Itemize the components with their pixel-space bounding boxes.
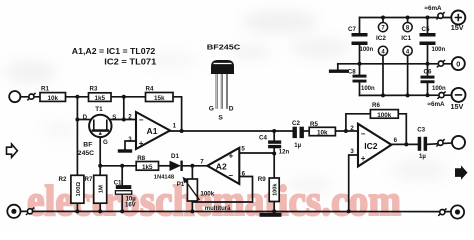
shield connector bottom-right xyxy=(451,205,464,218)
BF245C TO-92 package body xyxy=(209,60,234,122)
svg-text:C5: C5 xyxy=(422,26,430,33)
svg-text:A2: A2 xyxy=(216,161,227,171)
wire C7 column top xyxy=(359,18,361,34)
svg-text:IC2 = TL071: IC2 = TL071 xyxy=(104,57,156,67)
node ground rail IC2 pin3 xyxy=(347,209,351,213)
node ground rail C1 xyxy=(120,209,124,213)
node R3/R4/T1-S junction xyxy=(122,95,126,99)
plug at +15V xyxy=(436,12,444,19)
capacitor C5 100n xyxy=(420,26,446,53)
wire R9 top lead xyxy=(273,154,275,179)
capacitor C2 1u xyxy=(292,120,304,149)
svg-text:12n: 12n xyxy=(279,149,290,155)
wire C4 top lead xyxy=(273,131,275,140)
node 0V rail C7/C8 xyxy=(358,62,362,66)
svg-text:5: 5 xyxy=(241,145,245,152)
svg-text:R5: R5 xyxy=(310,121,318,128)
svg-text:S: S xyxy=(218,115,223,122)
diode D1 1N4148 xyxy=(154,153,182,180)
wire vertical from top rail to source/pin2 node xyxy=(123,97,125,120)
op-amp A1 xyxy=(128,112,176,149)
svg-text:1k5: 1k5 xyxy=(94,95,105,102)
svg-text:100k: 100k xyxy=(377,112,392,119)
wire power -15V rail xyxy=(360,94,452,96)
wire A2 pin5 to C4/R9 node xyxy=(239,152,274,155)
wire R7 bottom lead xyxy=(99,203,101,211)
svg-text:10k: 10k xyxy=(47,95,58,102)
input signal arrow (outline) xyxy=(7,144,18,157)
svg-text:3: 3 xyxy=(350,148,354,155)
node R1/R3/T1-D junction xyxy=(75,95,79,99)
wire T1 source lead to A1 pin2 xyxy=(110,119,136,121)
resistor R2 xyxy=(59,175,84,203)
plug at 0V xyxy=(437,60,445,67)
capacitor C3 1u xyxy=(417,126,427,160)
wire R5 to IC2 pin2 xyxy=(335,130,358,132)
wire C2 to R5 xyxy=(304,130,309,132)
node IC2 output junction xyxy=(404,142,408,146)
IC1 supply pin 8 callout xyxy=(403,23,412,32)
IC1 supply pin 4 callout xyxy=(403,46,412,55)
svg-text:R3: R3 xyxy=(90,85,98,92)
svg-text:multitură: multitură xyxy=(205,206,231,212)
svg-text:2: 2 xyxy=(350,125,354,132)
svg-text:R1: R1 xyxy=(41,86,49,93)
svg-text:1: 1 xyxy=(173,123,177,130)
wire A1 pin3 to ground bar xyxy=(125,141,136,149)
svg-text:C2: C2 xyxy=(292,120,300,127)
svg-text:R8: R8 xyxy=(137,155,145,162)
svg-text:100k: 100k xyxy=(200,191,214,198)
node gate/R7 junction xyxy=(98,164,102,168)
resistor R9 xyxy=(258,176,279,202)
wire IC2 pin3 down to ground rail xyxy=(349,155,358,211)
wire R4 to feedback corner down to A1 output xyxy=(173,97,182,131)
svg-text:1N4148: 1N4148 xyxy=(154,175,175,181)
svg-text:R7: R7 xyxy=(85,176,93,183)
svg-text:−: − xyxy=(228,171,233,180)
wire D1 to A2 output pin7 xyxy=(183,165,207,167)
wire C4 bottom lead xyxy=(273,148,275,153)
svg-text:D: D xyxy=(83,114,88,121)
capacitor C7 100n xyxy=(348,26,374,53)
resistor R3 xyxy=(89,85,112,102)
svg-text:15k: 15k xyxy=(154,95,165,102)
svg-text:100n: 100n xyxy=(360,47,374,53)
IC2 supply pin 7 callout xyxy=(378,23,387,32)
wire A2 pin6 feedback loop xyxy=(192,177,252,203)
resistor R5 xyxy=(309,121,335,136)
svg-text:3: 3 xyxy=(128,136,132,143)
node -rail IC1 pin4 xyxy=(406,93,410,97)
ground bar below rail at R9 xyxy=(260,213,282,217)
capacitor C1 electrolytic 10u/16V xyxy=(114,180,137,209)
node ground rail P1 xyxy=(190,209,194,213)
resistor R7 xyxy=(85,175,107,203)
capacitor C6 100n xyxy=(421,68,447,92)
svg-text:C7: C7 xyxy=(348,26,356,33)
output connector xyxy=(452,136,465,149)
node T1 source / A1 pin2 xyxy=(122,118,126,122)
svg-text:G: G xyxy=(209,105,214,112)
svg-text:6: 6 xyxy=(242,170,246,177)
svg-text:1µ: 1µ xyxy=(419,154,426,160)
svg-text:16V: 16V xyxy=(125,202,136,208)
svg-text:100k: 100k xyxy=(273,183,279,196)
svg-text:245C: 245C xyxy=(78,150,94,157)
node C4 top junction xyxy=(272,129,276,133)
svg-text:2: 2 xyxy=(128,114,132,121)
svg-text:100n: 100n xyxy=(432,47,446,53)
svg-text:100n: 100n xyxy=(361,86,375,92)
node -rail IC2 pin4 xyxy=(381,93,385,97)
wire P1 bottom lead to ground rail xyxy=(191,201,193,211)
op-amp IC2 xyxy=(350,124,397,167)
wire R6 feedback up branch xyxy=(346,114,371,131)
wire IC2 pin7 lead xyxy=(382,18,384,23)
node ground rail R7 xyxy=(98,209,102,213)
svg-text:S: S xyxy=(112,114,116,121)
svg-text:6: 6 xyxy=(394,137,398,144)
plug at input xyxy=(27,93,35,100)
wire IC2 pin4 lead down to -rail xyxy=(382,55,384,95)
svg-text:IC1: IC1 xyxy=(401,35,411,42)
wire T1 gate down to R8 node xyxy=(99,132,101,166)
svg-text:A1,A2 = IC1 = TL072: A1,A2 = IC1 = TL072 xyxy=(72,46,156,56)
wire C8 column top xyxy=(359,64,361,75)
wire A1 output to C2 xyxy=(170,130,293,132)
plug at bottom-left xyxy=(26,208,34,215)
IC2 supply pin 4 callout xyxy=(378,46,387,55)
node R5/R6/IC2 pin2 junction xyxy=(344,129,348,133)
wire R6 to IC2 output xyxy=(398,114,406,145)
shield connector bottom-left xyxy=(7,205,20,218)
plug at -15V xyxy=(437,91,445,98)
plug at output xyxy=(436,139,444,146)
wire R1 to R3 xyxy=(66,96,89,98)
wire C5 to 0V rail xyxy=(427,45,429,64)
BF245C package legs xyxy=(217,74,227,109)
svg-text:10k: 10k xyxy=(317,129,328,136)
svg-text:C6: C6 xyxy=(424,68,432,75)
wire IC1 pin4 lead down to -rail xyxy=(407,55,409,95)
svg-text:BF245C: BF245C xyxy=(207,42,241,51)
wire IC1 pin8 lead xyxy=(407,18,409,23)
node top rail pin7 xyxy=(381,16,385,20)
ground bar at 0V rail left end xyxy=(329,70,349,73)
capacitor C8 100n xyxy=(348,68,375,92)
wire R8 to D1 xyxy=(159,165,170,167)
wire C6 to -15V rail xyxy=(427,83,429,95)
node T1 drain branch xyxy=(75,118,79,122)
capacitor C4 12n xyxy=(259,135,289,156)
wire power +15V top rail xyxy=(360,17,452,19)
svg-text:C1: C1 xyxy=(114,180,122,187)
potentiometer P1 100k xyxy=(177,177,231,212)
wire C3 to output terminal xyxy=(427,143,452,144)
wire 0V rail ground stub xyxy=(337,64,339,70)
svg-text:15V: 15V xyxy=(451,23,464,32)
wire bottom ground rail xyxy=(21,210,451,212)
svg-text:15V: 15V xyxy=(451,102,464,111)
wire power 0V middle rail xyxy=(338,63,452,65)
svg-text:+: + xyxy=(229,152,234,161)
wire P1 top lead xyxy=(191,166,193,179)
terminal -15V xyxy=(451,88,466,111)
wire IC2 output to C3 xyxy=(391,143,417,145)
wire vertical column T1 drain / R2 xyxy=(76,97,78,176)
input connector top-left xyxy=(9,91,20,102)
wire C6 column top xyxy=(427,64,429,76)
wire C1 top lead xyxy=(121,166,123,185)
node A1 output junction xyxy=(180,129,184,133)
svg-text:T1: T1 xyxy=(95,106,103,113)
svg-text:≈6mA: ≈6mA xyxy=(425,5,443,12)
node C1 junction xyxy=(120,164,124,168)
wire R3 to R4 xyxy=(111,96,146,98)
wire C1 bottom lead xyxy=(121,194,123,211)
node 0V rail C5/C6 xyxy=(426,62,430,66)
wire top rail input to R1 xyxy=(20,96,40,98)
node top rail pin8 xyxy=(406,16,410,20)
svg-text:7: 7 xyxy=(200,158,204,165)
node ground rail R2 xyxy=(75,209,79,213)
resistor R8 xyxy=(136,155,158,171)
svg-text:≈6mA: ≈6mA xyxy=(428,101,446,108)
node C4/R9/A2 pin5 junction xyxy=(272,152,276,156)
wire C8 to -15V rail xyxy=(359,83,361,96)
svg-text:1µ: 1µ xyxy=(294,143,301,149)
node D1/P1/A2 out junction xyxy=(190,164,194,168)
wire R7 top lead xyxy=(99,166,101,176)
wire T1 drain lead xyxy=(77,119,91,121)
wire R9 bottom lead xyxy=(273,202,275,212)
svg-text:100Ω: 100Ω xyxy=(76,182,82,197)
output signal arrow (solid) xyxy=(455,165,468,179)
svg-text:C4: C4 xyxy=(259,135,267,142)
terminal +15V xyxy=(451,11,466,33)
svg-text:A1: A1 xyxy=(147,126,158,136)
plug at bottom-right xyxy=(438,208,446,215)
svg-text:G: G xyxy=(103,139,108,146)
svg-text:R2: R2 xyxy=(59,176,67,183)
svg-text:1M: 1M xyxy=(99,185,105,193)
svg-text:−: − xyxy=(361,130,366,139)
transistor T1 BF245C JFET xyxy=(78,106,117,157)
svg-text:−: − xyxy=(139,115,144,124)
op-amp A2 (points left) xyxy=(200,145,245,184)
svg-text:C8: C8 xyxy=(348,68,356,75)
svg-text:0: 0 xyxy=(456,60,460,69)
svg-text:C3: C3 xyxy=(417,126,425,133)
svg-text:R4: R4 xyxy=(146,85,154,92)
svg-text:BF: BF xyxy=(83,142,92,149)
svg-text:+: + xyxy=(361,154,366,163)
svg-text:1k5: 1k5 xyxy=(142,164,153,171)
resistor R6 xyxy=(370,102,398,119)
node ground rail R9 xyxy=(272,209,276,213)
wire C7 to 0V rail xyxy=(359,45,361,64)
svg-text:D: D xyxy=(229,105,234,112)
wire R2 bottom lead xyxy=(76,203,78,211)
wire C5 column top xyxy=(427,18,429,34)
svg-text:IC2: IC2 xyxy=(364,141,378,151)
resistor R4 xyxy=(146,85,174,102)
node -rail C6 xyxy=(426,93,430,97)
svg-text:+: + xyxy=(139,139,144,148)
terminal 0V xyxy=(452,57,465,70)
svg-text:D1: D1 xyxy=(171,153,179,160)
ground bar at A1 pin3 xyxy=(118,149,132,152)
svg-text:P1: P1 xyxy=(177,181,185,188)
svg-text:R9: R9 xyxy=(258,176,266,183)
svg-text:IC2: IC2 xyxy=(376,35,386,42)
node top rail C5 xyxy=(426,16,430,20)
svg-text:R6: R6 xyxy=(372,102,380,109)
background scan noise xyxy=(4,10,450,195)
wire gate node to R8 xyxy=(100,165,136,167)
resistor R1 xyxy=(40,86,66,102)
svg-text:100n: 100n xyxy=(432,86,446,92)
